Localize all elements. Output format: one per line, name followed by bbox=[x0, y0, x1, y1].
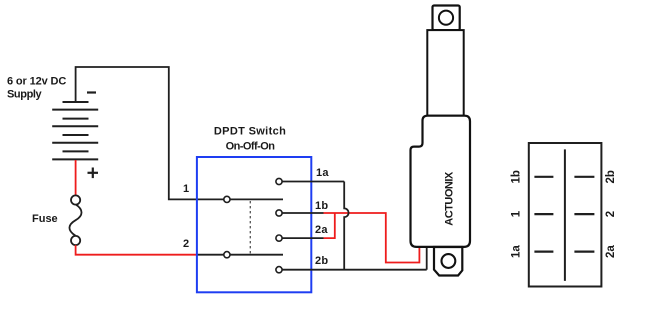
connector center divider bbox=[564, 149, 566, 281]
svg-text:1a: 1a bbox=[511, 245, 523, 258]
actuator body bbox=[411, 116, 471, 247]
wire 2b to actuator (black vertical) bbox=[426, 246, 428, 270]
svg-text:1: 1 bbox=[511, 210, 523, 217]
svg-text:2a: 2a bbox=[315, 224, 328, 236]
connector label 1b bbox=[511, 170, 523, 183]
svg-text:1a: 1a bbox=[316, 167, 329, 179]
svg-text:1b: 1b bbox=[511, 170, 523, 183]
battery minus sign bbox=[87, 91, 96, 93]
wire 2a branch to 1b (red) bbox=[324, 213, 335, 238]
wire 1b to actuator (red) bbox=[324, 213, 420, 263]
battery B1 bbox=[52, 102, 98, 159]
svg-text:Fuse: Fuse bbox=[32, 213, 58, 225]
connector label 1 bbox=[511, 210, 523, 217]
switch contact 1a bbox=[276, 178, 344, 184]
switch pole 1 contact and arm bbox=[224, 196, 283, 202]
fuse label bbox=[32, 213, 58, 225]
switch pole 2 contact and arm bbox=[224, 252, 283, 258]
svg-text:DPDT Switch: DPDT Switch bbox=[214, 126, 286, 138]
switch contact 2a bbox=[276, 235, 324, 241]
svg-text:2b: 2b bbox=[315, 255, 328, 267]
switch mechanical linkage (dashed) bbox=[249, 201, 251, 254]
connector pin 1 bbox=[534, 213, 553, 215]
DPDT switch label bbox=[214, 126, 286, 153]
switch pole 1 label bbox=[183, 183, 189, 195]
label 2a bbox=[315, 224, 328, 236]
svg-text:2: 2 bbox=[183, 238, 189, 250]
label 2b bbox=[315, 255, 328, 267]
actuator shaft bbox=[427, 30, 463, 116]
svg-text:2: 2 bbox=[605, 211, 617, 217]
wire battery negative to switch pole 1 bbox=[76, 67, 225, 199]
connector label 2b bbox=[605, 170, 617, 183]
svg-text:2b: 2b bbox=[605, 170, 617, 183]
connector pin 2b bbox=[574, 176, 594, 178]
switch S1 enclosure (blue box) bbox=[197, 157, 311, 292]
connector pin 2 bbox=[574, 213, 594, 215]
wire battery positive to fuse (red) bbox=[75, 160, 77, 196]
svg-text:ACTUONIX: ACTUONIX bbox=[443, 171, 455, 226]
battery label "6 or 12v DC Supply" bbox=[7, 76, 66, 101]
wire fuse to switch pole 2 (red) bbox=[76, 245, 198, 255]
connector label 1a bbox=[511, 245, 523, 258]
wire 1a to 2b (black, with hop over red) bbox=[344, 182, 348, 270]
svg-text:On-Off-On: On-Off-On bbox=[226, 141, 276, 153]
connector label 2a bbox=[605, 245, 617, 258]
svg-text:1b: 1b bbox=[315, 200, 328, 212]
switch contact 2b bbox=[276, 267, 427, 273]
label 1b bbox=[315, 200, 328, 212]
svg-text:1: 1 bbox=[183, 183, 189, 195]
actuator top clevis bbox=[433, 6, 460, 31]
fuse F1 bbox=[69, 195, 81, 245]
wire pole 2 inside switch (black) bbox=[198, 254, 226, 256]
svg-text:2a: 2a bbox=[605, 245, 617, 258]
switch pole 2 label bbox=[183, 238, 189, 250]
svg-text:Supply: Supply bbox=[7, 89, 43, 101]
connector label 2 bbox=[605, 211, 617, 217]
connector pin 1b bbox=[534, 176, 553, 178]
switch contact 1b bbox=[276, 210, 324, 216]
actuator bottom clevis bbox=[434, 247, 462, 276]
connector block outline bbox=[529, 143, 602, 287]
battery plus sign bbox=[88, 168, 99, 179]
svg-text:6 or 12v DC: 6 or 12v DC bbox=[7, 76, 66, 88]
connector pin 2a bbox=[574, 251, 594, 253]
connector pin 1a bbox=[534, 251, 553, 253]
label 1a bbox=[316, 167, 329, 179]
actuator brand text ACTUONIX bbox=[443, 171, 455, 226]
